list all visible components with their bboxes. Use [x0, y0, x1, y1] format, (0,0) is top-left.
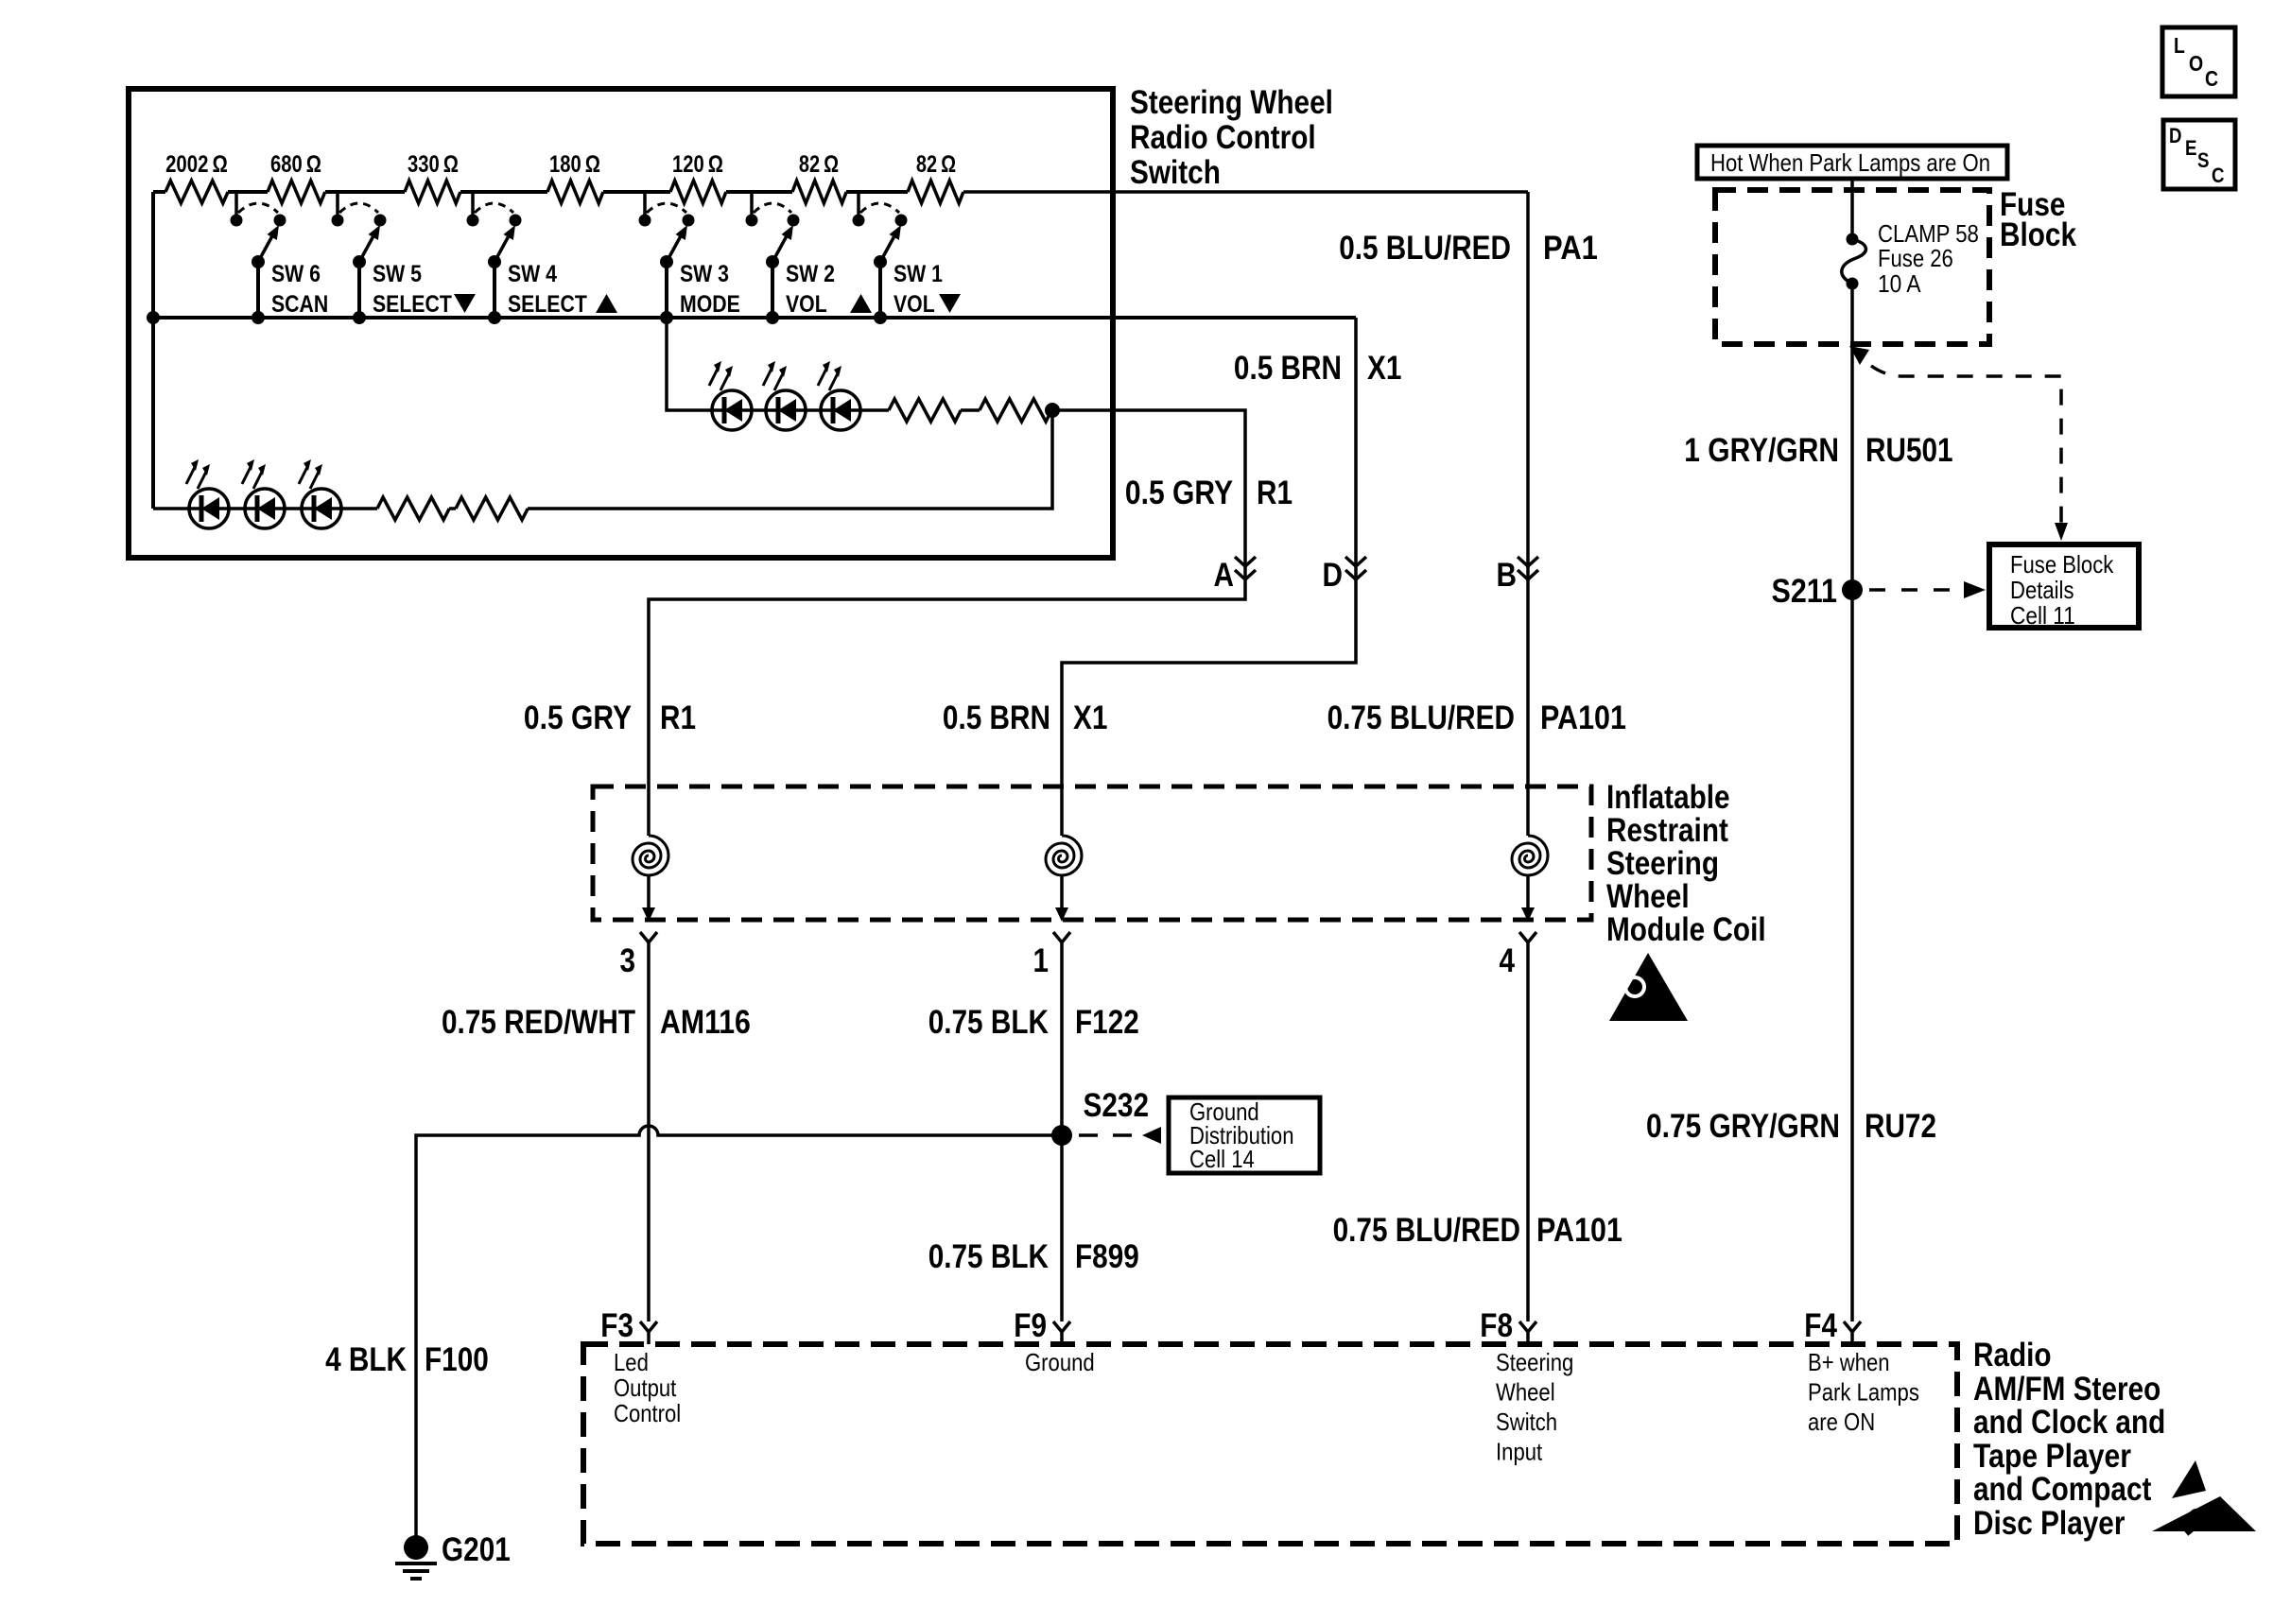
wire: [961, 408, 980, 412]
svg-text:Restraint: Restraint: [1606, 812, 1728, 849]
Fuse Block Details Cell 11 box: [1989, 544, 2139, 628]
wire: 1 GRY/GRN RU501 down to F4: [1850, 284, 1854, 1322]
svg-text:F4: F4: [1804, 1307, 1837, 1344]
wire segment before resistor R3: [325, 190, 405, 194]
node: LED branches junction: [1045, 403, 1060, 418]
wire segment before resistor R1: [153, 190, 165, 194]
svg-text:F3: F3: [600, 1307, 633, 1344]
svg-text:0.5 BRN: 0.5 BRN: [1234, 350, 1342, 387]
svg-text:0.5 GRY: 0.5 GRY: [524, 700, 632, 736]
wire segment before resistor R4: [460, 190, 547, 194]
wire: ground distribution horizontal with hop, down to G201: [416, 1126, 1062, 1536]
resistor R6 82 ohm: [792, 181, 846, 203]
resistor R7 82 ohm: [908, 181, 963, 203]
svg-text:Tape Player: Tape Player: [1973, 1438, 2131, 1475]
DESC reference box: [2163, 120, 2235, 189]
pin 4 of module coil: [1519, 932, 1536, 955]
svg-text:SELECT: SELECT: [508, 291, 587, 318]
svg-text:Inflatable: Inflatable: [1606, 779, 1730, 816]
svg-text:Radio: Radio: [1973, 1337, 2052, 1373]
svg-text:3: 3: [620, 942, 636, 979]
LED (lower row #2): [242, 459, 285, 528]
connector chevron A: [1235, 557, 1256, 579]
svg-text:B+ when: B+ when: [1808, 1348, 1890, 1376]
resistor R3 330 ohm: [405, 181, 460, 203]
fuse CLAMP 58 / Fuse 26 / 10 A: [1842, 233, 1866, 290]
svg-text:SW 2: SW 2: [786, 261, 835, 287]
wire: lower row to junction: [528, 410, 1052, 509]
svg-text:RU501: RU501: [1865, 432, 1953, 469]
switch SW 4 (SELECT): [467, 192, 618, 324]
svg-text:0.75 RED/WHT: 0.75 RED/WHT: [442, 1004, 635, 1041]
wire: switch common rail: [153, 316, 1356, 320]
switch assembly box (Steering Wheel Radio Control Switch): [129, 89, 1113, 558]
dashed arrow S232 to Ground Distribution box: [1079, 1127, 1161, 1144]
svg-text:Steering: Steering: [1606, 845, 1719, 882]
svg-text:PA101: PA101: [1540, 700, 1626, 736]
switch SW 5 (SELECT): [332, 192, 477, 324]
svg-text:82 Ω: 82 Ω: [799, 151, 839, 178]
wire: 0.5 BLU/RED PA1 vertical (B branch): [1526, 192, 1530, 836]
LED (lower row #1): [186, 459, 229, 528]
airbag warning symbol: [1609, 953, 1688, 1021]
svg-text:10 A: 10 A: [1878, 269, 1921, 298]
svg-text:0.75 BLU/RED: 0.75 BLU/RED: [1333, 1212, 1520, 1249]
svg-text:0.75 BLK: 0.75 BLK: [928, 1238, 1049, 1275]
svg-text:0.75 BLK: 0.75 BLK: [928, 1004, 1049, 1041]
resistor R4 180 ohm: [547, 181, 603, 203]
svg-text:Wheel: Wheel: [1606, 878, 1690, 915]
svg-text:0.5 GRY: 0.5 GRY: [1125, 475, 1233, 511]
svg-text:0.75 BLU/RED: 0.75 BLU/RED: [1327, 700, 1515, 736]
node S211: [1842, 579, 1863, 600]
svg-text:and Clock and: and Clock and: [1973, 1404, 2165, 1441]
resistor R5 120 ohm: [670, 181, 726, 203]
svg-text:4: 4: [1500, 942, 1516, 979]
svg-text:S211: S211: [1772, 573, 1838, 610]
Hot When Park Lamps are On box: [1697, 146, 2007, 179]
svg-text:Cell 11: Cell 11: [2010, 601, 2075, 630]
pin 1 of module coil: [1053, 932, 1070, 955]
svg-text:Park Lamps: Park Lamps: [1808, 1378, 1919, 1407]
pin F9 of radio: [1053, 1322, 1070, 1344]
pin F4 of radio: [1844, 1322, 1861, 1344]
svg-text:2002 Ω: 2002 Ω: [165, 151, 228, 178]
svg-text:PA1: PA1: [1543, 230, 1598, 267]
resistor lower LED row left: [377, 497, 449, 520]
wire: upper LED row: [712, 408, 889, 412]
switch SW 3 (MODE): [639, 192, 740, 324]
svg-text:SW 3: SW 3: [680, 261, 729, 287]
svg-text:Wheel: Wheel: [1496, 1378, 1555, 1407]
svg-text:1: 1: [1033, 942, 1050, 979]
svg-text:Hot When Park Lamps are On: Hot When Park Lamps are On: [1710, 148, 1990, 177]
svg-text:SW 4: SW 4: [508, 261, 557, 287]
switch SW 1 (VOL): [853, 192, 962, 324]
svg-text:E: E: [2185, 136, 2197, 160]
svg-text:SW 1: SW 1: [894, 261, 943, 287]
svg-text:Input: Input: [1496, 1438, 1543, 1466]
svg-text:O: O: [2189, 51, 2203, 76]
svg-text:F8: F8: [1480, 1307, 1513, 1344]
svg-text:0.5 BLU/RED: 0.5 BLU/RED: [1339, 230, 1511, 267]
svg-text:A: A: [1214, 557, 1235, 594]
wire: 0.75 BLK F122/F899 (F9 branch): [1060, 955, 1064, 1322]
wire: hot box into fuse: [1850, 179, 1854, 239]
svg-text:F100: F100: [425, 1341, 489, 1378]
svg-text:Fuse Block: Fuse Block: [2010, 550, 2114, 579]
wire: 0.5 GRY R1 (A branch): [649, 410, 1245, 836]
wire segment before resistor R2: [228, 190, 268, 194]
svg-text:X1: X1: [1073, 700, 1107, 736]
svg-text:D: D: [1323, 557, 1344, 594]
svg-text:F899: F899: [1075, 1238, 1139, 1275]
svg-text:680 Ω: 680 Ω: [270, 151, 321, 178]
pin F8 of radio: [1519, 1322, 1536, 1344]
wire segment before resistor R5: [603, 190, 670, 194]
wire: chain exit to PA1 wire: [963, 190, 1528, 194]
svg-text:SW 6: SW 6: [271, 261, 321, 287]
svg-text:RU72: RU72: [1865, 1108, 1936, 1145]
svg-text:C: C: [2212, 164, 2225, 187]
svg-text:Control: Control: [614, 1399, 681, 1427]
wire: 0.5 BRN X1 (D branch): [1062, 318, 1356, 836]
svg-text:Module Coil: Module Coil: [1606, 911, 1766, 948]
svg-text:0.5 BRN: 0.5 BRN: [943, 700, 1050, 736]
dashed reference: fuse box to details box: [1849, 346, 2068, 541]
resistor upper LED row right: [980, 399, 1051, 422]
wire: left inner vertical: [151, 192, 155, 509]
svg-text:SELECT: SELECT: [373, 291, 452, 318]
svg-text:S: S: [2197, 148, 2210, 172]
node: rail left junction: [147, 311, 160, 324]
LED (upper row #3): [818, 361, 860, 430]
svg-text:PA101: PA101: [1536, 1212, 1622, 1249]
svg-text:D: D: [2169, 124, 2182, 147]
svg-text:Steering Wheel: Steering Wheel: [1130, 84, 1333, 121]
pin F3 of radio: [640, 1322, 657, 1344]
svg-text:VOL: VOL: [786, 291, 827, 318]
svg-text:1 GRY/GRN: 1 GRY/GRN: [1684, 432, 1839, 469]
wire: 0.75 BLU/RED PA101 (F8 branch): [1526, 955, 1530, 1322]
svg-text:SW 5: SW 5: [373, 261, 422, 287]
LED (upper row #2): [763, 361, 806, 430]
wire segment before resistor R6: [726, 190, 792, 194]
svg-text:R1: R1: [1257, 475, 1293, 511]
wire: lower LED row: [153, 507, 377, 510]
svg-text:G201: G201: [442, 1531, 511, 1568]
svg-text:Disc Player: Disc Player: [1973, 1505, 2126, 1542]
svg-text:120 Ω: 120 Ω: [672, 151, 723, 178]
svg-text:Cell 14: Cell 14: [1189, 1145, 1255, 1173]
resistor R2 680 ohm: [268, 181, 325, 203]
svg-text:are ON: are ON: [1808, 1408, 1875, 1436]
Radio dashed box: [583, 1344, 1957, 1544]
resistor R1 2002 ohm: [165, 181, 228, 203]
svg-text:Output: Output: [614, 1373, 677, 1402]
svg-text:Block: Block: [2000, 216, 2076, 253]
svg-text:Led: Led: [614, 1348, 649, 1376]
svg-text:X1: X1: [1367, 350, 1401, 387]
node S232: [1051, 1125, 1072, 1146]
svg-text:Details: Details: [2010, 576, 2074, 604]
coil L3 (PA101 wire): [1512, 836, 1548, 922]
svg-text:R1: R1: [660, 700, 696, 736]
wire segment before resistor R7: [846, 190, 908, 194]
svg-text:AM/FM Stereo: AM/FM Stereo: [1973, 1371, 2160, 1408]
ground G201: [395, 1535, 437, 1579]
resistor upper LED row left: [889, 399, 961, 422]
svg-text:4 BLK: 4 BLK: [325, 1341, 407, 1378]
LOC reference box: [2162, 27, 2235, 96]
svg-text:AM116: AM116: [660, 1004, 751, 1041]
dashed arrow S211 to Fuse Block Details box: [1869, 581, 1986, 598]
svg-text:Radio Control: Radio Control: [1130, 119, 1316, 156]
svg-text:180 Ω: 180 Ω: [549, 151, 600, 178]
svg-text:VOL: VOL: [894, 291, 935, 318]
svg-text:MODE: MODE: [680, 291, 740, 318]
svg-text:Steering: Steering: [1496, 1348, 1573, 1376]
Inflatable Restraint Steering Wheel Module Coil dashed box: [593, 786, 1591, 920]
connector chevron D: [1345, 557, 1366, 579]
pin 3 of module coil: [640, 932, 657, 955]
wire: 0.75 RED/WHT AM116 (F3 branch): [647, 955, 651, 1322]
svg-text:F9: F9: [1014, 1307, 1047, 1344]
switch SW 2 (VOL): [746, 192, 873, 324]
LED (lower row #3): [299, 459, 341, 528]
wire: [449, 507, 456, 510]
coil L1 (R1 wire): [633, 836, 668, 922]
svg-text:Ground: Ground: [1025, 1348, 1095, 1376]
svg-text:0.75 GRY/GRN: 0.75 GRY/GRN: [1646, 1108, 1840, 1145]
wire: SW3 pivot down to upper LED row: [667, 318, 712, 410]
resistor lower LED row right: [456, 497, 528, 520]
svg-text:and Compact: and Compact: [1973, 1471, 2152, 1508]
svg-text:B: B: [1497, 557, 1518, 594]
svg-text:Fuse 26: Fuse 26: [1878, 244, 1953, 272]
svg-text:S232: S232: [1084, 1087, 1150, 1124]
svg-text:F122: F122: [1075, 1004, 1139, 1041]
svg-text:Switch: Switch: [1130, 154, 1221, 191]
switch SW 6 (SCAN): [231, 192, 329, 324]
svg-text:L: L: [2174, 33, 2185, 58]
ESD warning symbol: [2152, 1460, 2256, 1533]
svg-text:SCAN: SCAN: [271, 291, 328, 318]
LED (upper row #1): [709, 361, 752, 430]
svg-text:Switch: Switch: [1496, 1408, 1557, 1436]
connector chevron B: [1518, 557, 1538, 579]
coil L2 (X1 wire): [1046, 836, 1082, 922]
svg-text:C: C: [2205, 66, 2218, 91]
Fuse Block dashed box: [1715, 190, 1989, 344]
Ground Distribution Cell 14 box: [1169, 1097, 1320, 1173]
svg-text:82 Ω: 82 Ω: [916, 151, 956, 178]
svg-text:330 Ω: 330 Ω: [408, 151, 459, 178]
